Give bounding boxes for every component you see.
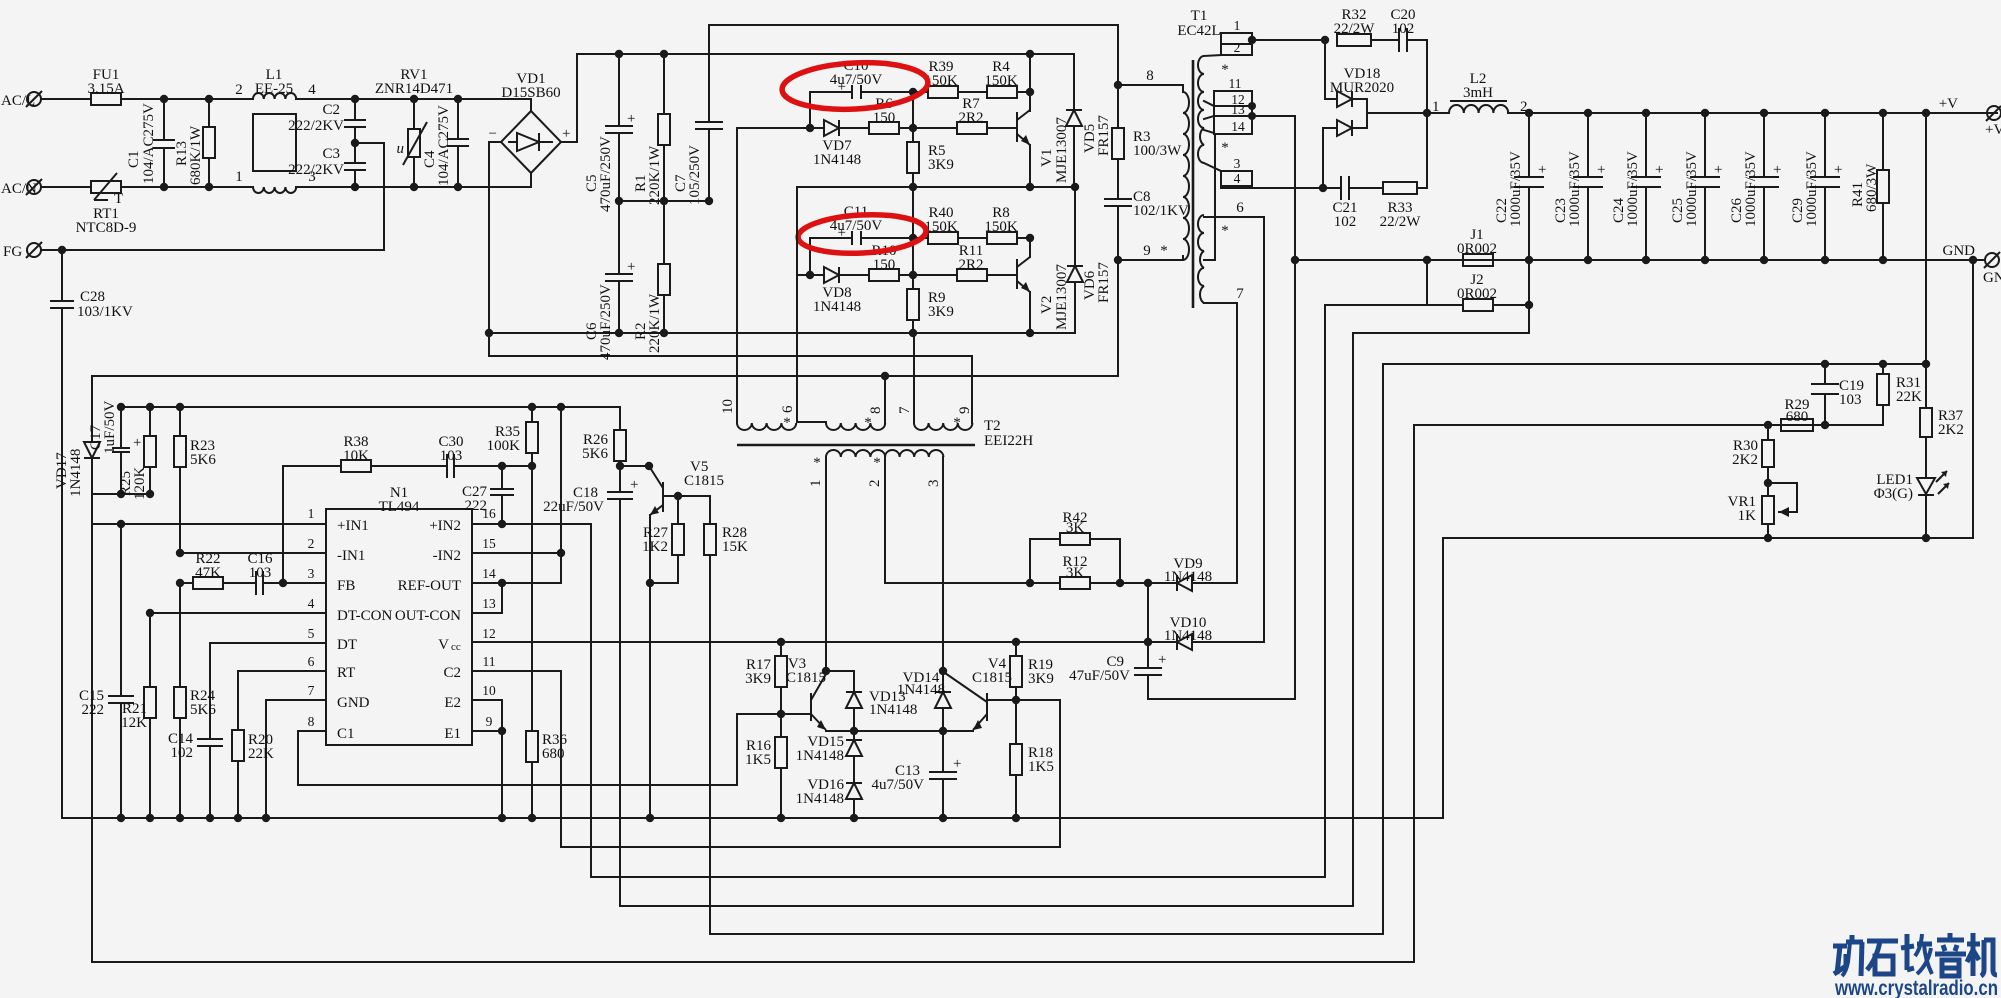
wire lower secondary center tap to pins box <box>1204 134 1215 260</box>
svg-text:10: 10 <box>482 683 496 698</box>
wire T2 pin8 riser to T1 pin9 line <box>884 376 886 423</box>
svg-text:ZNR14D471: ZNR14D471 <box>375 81 453 97</box>
capacitor C27 222 <box>462 462 514 528</box>
wire pin13 OUT-CON tie to pin14 <box>472 583 502 613</box>
wire AC/N into bridge bottom vertex <box>530 173 532 187</box>
wire T2 pin7 riser to HV- bus <box>913 333 915 423</box>
resistor R28 15K <box>678 496 748 934</box>
wire LED bottom rail <box>1443 537 1973 539</box>
svg-text:+: + <box>1773 162 1781 178</box>
resistor R40 150K <box>913 205 987 244</box>
svg-text:8: 8 <box>308 714 315 729</box>
svg-text:1000uF/35V: 1000uF/35V <box>1804 151 1820 227</box>
svg-text:11: 11 <box>1229 76 1242 91</box>
wire VD17/C17 bottom tie <box>92 493 150 495</box>
svg-text:222: 222 <box>82 702 105 718</box>
svg-text:4u7/50V: 4u7/50V <box>830 72 883 88</box>
svg-text:10K: 10K <box>343 448 369 464</box>
svg-text:3K9: 3K9 <box>745 671 771 687</box>
svg-text:1N4148: 1N4148 <box>68 449 84 497</box>
node AC/L input terminal <box>1 91 42 109</box>
svg-text:22K: 22K <box>248 746 274 762</box>
wire pin2 -IN1 stub <box>180 552 326 554</box>
svg-text:7: 7 <box>1236 286 1244 302</box>
capacitor C4 104/AC275V <box>422 95 469 191</box>
svg-text:2K2: 2K2 <box>1732 452 1758 468</box>
svg-text:FG: FG <box>3 244 22 260</box>
svg-text:3K: 3K <box>1066 565 1085 581</box>
svg-text:+: + <box>953 756 961 772</box>
svg-text:150K: 150K <box>924 219 958 235</box>
wire V1 collector branch <box>1029 54 1031 111</box>
svg-text:+: + <box>1655 162 1663 178</box>
wire T2 6 to 8 winding link <box>797 422 826 423</box>
svg-text:DT: DT <box>337 637 357 653</box>
svg-text:470uF/250V: 470uF/250V <box>598 136 614 212</box>
wire T1 pin8 <box>1118 84 1183 86</box>
node T1 pins 3/4 box <box>1204 156 1252 186</box>
svg-text:10: 10 <box>720 399 736 414</box>
svg-text:220K/1W: 220K/1W <box>647 293 663 353</box>
resistor R6 150 <box>869 96 957 134</box>
capacitor C14 102 <box>168 731 223 818</box>
svg-text:2: 2 <box>235 82 243 98</box>
capacitor C16 103 <box>247 551 326 595</box>
svg-text:3K9: 3K9 <box>928 157 954 173</box>
svg-text:120K: 120K <box>132 467 148 501</box>
node T1 pins 1/2 box <box>1204 18 1256 56</box>
svg-text:C2: C2 <box>443 665 461 681</box>
svg-text:C1815: C1815 <box>684 473 724 489</box>
svg-text:-IN1: -IN1 <box>337 548 365 564</box>
diode VD15 1N4148 <box>796 731 862 783</box>
wire bridge + to HV+ bus <box>561 54 1074 142</box>
glyph kuang 矿 <box>1833 935 1863 976</box>
capacitor C10 4u7/50V <box>810 58 913 128</box>
resistor R39 150K <box>913 59 987 98</box>
svg-text:C28: C28 <box>80 289 105 305</box>
svg-text:103: 103 <box>1839 392 1862 408</box>
wire pin1 +IN1 stub <box>92 523 326 525</box>
svg-text:1000uF/35V: 1000uF/35V <box>1743 151 1759 227</box>
svg-text:C3: C3 <box>322 146 340 162</box>
winding T2 secondary 2-3 <box>885 450 943 457</box>
resistor R37 2K2 <box>1920 408 1964 478</box>
svg-text:8: 8 <box>1146 68 1154 84</box>
wire pins3/4 output <box>1221 186 1323 188</box>
svg-text:C1: C1 <box>126 150 142 168</box>
svg-text:1K5: 1K5 <box>745 752 771 768</box>
svg-text:103/1KV: 103/1KV <box>77 304 133 320</box>
junction HV+ bus at V1 collector branch <box>1026 50 1034 58</box>
inductor L2 3mH <box>1427 71 1997 115</box>
wire +V sense descender <box>1925 113 1927 408</box>
svg-text:TL494: TL494 <box>379 499 420 515</box>
svg-text:+: + <box>133 435 141 451</box>
transistor V5 C1815 <box>620 459 724 822</box>
wire C7 top line to T1 pin8 <box>709 25 1118 85</box>
svg-text:C1: C1 <box>337 726 355 742</box>
svg-text:+V: +V <box>1939 96 1958 112</box>
resistor R36 680 <box>526 731 568 822</box>
wire pin7 GND stub <box>266 700 326 818</box>
svg-text:150: 150 <box>873 110 896 126</box>
svg-text:1N4148: 1N4148 <box>796 791 844 807</box>
wire pin4 DT-CON stub <box>150 612 326 614</box>
svg-text:*: * <box>873 455 881 471</box>
junction FG dot <box>58 246 66 254</box>
svg-text:5: 5 <box>308 626 315 641</box>
resistor R31 22K <box>1877 360 1922 425</box>
svg-text:3: 3 <box>1234 156 1241 171</box>
diode VD7 1N4148 <box>810 120 869 168</box>
svg-text:3: 3 <box>308 566 315 581</box>
wire pin10 E2 stub <box>472 700 502 731</box>
capacitor C17 1uF/50V <box>88 400 141 494</box>
resistor R12 3K <box>1026 554 1148 589</box>
svg-text:C1815: C1815 <box>972 670 1012 686</box>
wire C2/C3 midpoint to FG <box>355 143 384 250</box>
resistor R19 3K9 <box>1010 638 1054 704</box>
svg-text:9: 9 <box>957 407 973 415</box>
svg-text:OUT-CON: OUT-CON <box>395 608 461 624</box>
resistor R7 2R2 <box>957 96 1017 134</box>
svg-text:1N4148: 1N4148 <box>897 682 945 698</box>
svg-text:T1: T1 <box>1191 8 1208 24</box>
svg-text:+: + <box>1538 162 1546 178</box>
svg-text:7: 7 <box>308 683 315 698</box>
wire pin9 E1 stub <box>472 730 502 732</box>
svg-text:3K: 3K <box>1066 520 1085 536</box>
svg-text:1K: 1K <box>1738 508 1757 524</box>
capacitor C8 102/1KV <box>1104 189 1189 264</box>
resistor R4 150K <box>984 59 1034 98</box>
svg-text:15: 15 <box>482 536 496 551</box>
wire bridge - down to HV- bus <box>489 142 501 356</box>
resistor R2 220K/1W <box>633 201 670 353</box>
svg-text:7: 7 <box>897 406 913 414</box>
svg-text:1N4148: 1N4148 <box>1164 569 1212 585</box>
svg-text:1000uF/35V: 1000uF/35V <box>1508 151 1524 227</box>
wire L1 to bridge top (AC/L) <box>296 98 531 100</box>
svg-text:FB: FB <box>337 578 355 594</box>
svg-text:+: + <box>1834 162 1842 178</box>
svg-text:1000uF/35V: 1000uF/35V <box>1567 151 1583 227</box>
transistor V2 MJE13007 <box>1017 238 1070 337</box>
transformer T2 EEI22H drive transformer <box>720 128 1033 487</box>
svg-text:13: 13 <box>482 596 496 611</box>
svg-text:15K: 15K <box>722 539 748 555</box>
glyph shi 石 <box>1867 941 1898 974</box>
svg-text:22/2W: 22/2W <box>1334 21 1376 37</box>
transistor V3 C1815 <box>786 656 830 730</box>
inductor L1 EE-25 common mode choke <box>235 67 316 193</box>
svg-text:14: 14 <box>482 566 496 581</box>
svg-text:102: 102 <box>171 745 194 761</box>
capacitor C30 103 <box>438 434 532 478</box>
LED LED1 <box>1874 471 1949 542</box>
capacitor C21 102 <box>1323 176 1383 230</box>
red annotation ellipse around C10 <box>781 59 929 113</box>
wire R35 node to R36 <box>531 466 533 731</box>
svg-text:12: 12 <box>482 626 496 641</box>
svg-text:3.15A: 3.15A <box>87 81 124 97</box>
potentiometer VR1 1K <box>1728 483 1797 542</box>
wire L1 to bridge bottom (AC/N) <box>296 186 531 188</box>
svg-text:C1815: C1815 <box>786 670 826 686</box>
wire FG line <box>41 249 384 251</box>
wire T1 pin6 <box>1204 217 1264 642</box>
glyph ji 机 <box>1967 933 1997 976</box>
svg-text:EC42L: EC42L <box>1177 23 1220 39</box>
svg-text:220K/1W: 220K/1W <box>647 145 663 205</box>
junction C11/R40 node <box>909 234 917 242</box>
diode VD9 1N4148 <box>1144 556 1237 591</box>
svg-text:104/AC275V: 104/AC275V <box>436 105 452 186</box>
svg-text:+: + <box>627 259 635 275</box>
varistor RV1 ZNR14D471 <box>375 67 453 191</box>
svg-text:102: 102 <box>1334 214 1357 230</box>
node FG terminal <box>3 242 42 260</box>
red annotation ellipse around C11 <box>797 212 927 257</box>
jumper J2 0R002 <box>1423 256 1533 333</box>
svg-text:1K5: 1K5 <box>1028 759 1054 775</box>
svg-text:www.crystalradio.cn: www.crystalradio.cn <box>1834 976 1998 998</box>
glyph yin 音 <box>1935 933 1966 976</box>
resistor R32 22/2W <box>1321 7 1399 46</box>
svg-text:222: 222 <box>465 498 488 514</box>
svg-text:100K: 100K <box>487 438 521 454</box>
diode VD18 MUR2020 dual <box>1323 40 1431 188</box>
resistor R16 1K5 <box>745 714 787 822</box>
svg-text:+: + <box>1158 652 1166 668</box>
wire GND rail <box>1295 259 1985 261</box>
svg-text:11: 11 <box>483 654 496 669</box>
svg-text:T: T <box>114 191 123 207</box>
wire V4 base row <box>987 699 1060 701</box>
wire pins 12/13/14 to GND rail <box>1252 116 1295 699</box>
wire pins1/2 output to R32/VD18 <box>1252 39 1325 41</box>
wire control ground bus <box>62 817 1443 819</box>
capacitor C13 4u7/50V <box>872 731 962 822</box>
resistor R18 1K5 <box>1010 700 1054 822</box>
wire mid rail (half-bridge midpoint) <box>797 186 1075 188</box>
svg-text:680: 680 <box>542 746 565 762</box>
node +V output <box>1939 96 2001 138</box>
wire AC/N RT1 to L1 <box>121 186 253 188</box>
svg-text:EEI22H: EEI22H <box>984 433 1033 449</box>
winding T2 7-9 <box>914 423 972 430</box>
svg-text:2R2: 2R2 <box>958 110 983 126</box>
wire LED return to GND <box>1972 260 1974 538</box>
junction Vcc rail end <box>1144 638 1152 646</box>
resistor R8 150K <box>984 205 1034 244</box>
svg-text:105/250V: 105/250V <box>687 145 703 205</box>
wire J2 left node to +IN2 sense line <box>1325 305 1427 877</box>
wire T2 pin6 riser to midpoint rail <box>796 187 798 422</box>
transistor V4 C1815 <box>945 656 1012 730</box>
svg-text:1uF/50V: 1uF/50V <box>102 400 118 454</box>
wire T1 pin7 <box>1204 303 1237 583</box>
svg-text:C2: C2 <box>322 102 340 118</box>
svg-text:0R002: 0R002 <box>1457 286 1497 302</box>
capacitor C25 1000uF/35V <box>1670 109 1722 264</box>
resistor R24 5K6 <box>174 687 216 818</box>
svg-text:1000uF/35V: 1000uF/35V <box>1684 151 1700 227</box>
svg-text:1N4148: 1N4148 <box>796 748 844 764</box>
fuse FU1 3.15A <box>87 67 124 105</box>
svg-text:1: 1 <box>235 169 243 185</box>
capacitor C1 104/AC275V <box>126 95 175 191</box>
diode VD13 1N4148 <box>826 671 917 735</box>
wire -IN1 node vertical to R24 <box>179 583 181 687</box>
glyph shou 收 <box>1901 934 1932 974</box>
svg-text:V2: V2 <box>1039 296 1055 314</box>
svg-text:*: * <box>783 415 791 431</box>
svg-text:*: * <box>864 415 872 431</box>
resistor R17 3K9 <box>745 638 787 718</box>
svg-text:GND: GND <box>337 695 370 711</box>
resistor R3 100/3W snubber <box>1112 81 1182 199</box>
svg-text:2: 2 <box>867 480 883 488</box>
svg-text:+: + <box>1714 162 1722 178</box>
svg-text:*: * <box>953 415 961 431</box>
diode VD10 1N4148 <box>1144 583 1264 650</box>
svg-text:*: * <box>1221 223 1229 239</box>
wire V4 base to C2 line riser <box>1059 700 1061 847</box>
resistor R21 12K <box>121 613 156 818</box>
svg-text:9: 9 <box>1143 243 1151 259</box>
capacitor C6 470uF/250V <box>584 201 635 360</box>
svg-text:-IN2: -IN2 <box>433 548 461 564</box>
resistor R27 1K2 <box>642 496 684 587</box>
resistor R20 22K <box>232 730 274 818</box>
capacitor C9 47uF/50V <box>1069 642 1295 699</box>
capacitor C3 222/2KV <box>288 139 366 191</box>
svg-text:4: 4 <box>308 596 315 611</box>
svg-text:1: 1 <box>808 480 824 488</box>
svg-text:u: u <box>397 141 405 157</box>
resistor R35 100K <box>487 403 538 470</box>
resistor R1 220K/1W <box>633 50 670 205</box>
svg-text:+: + <box>1597 162 1605 178</box>
wire pin15 -IN2 stub <box>472 552 561 554</box>
resistor R41 680/3W <box>1850 109 1889 264</box>
wire sense top line <box>710 364 1926 934</box>
svg-text:V1: V1 <box>1039 149 1055 167</box>
svg-text:5K6: 5K6 <box>582 446 608 462</box>
resistor R33 22/2W <box>1380 113 1427 230</box>
wire T2 pin10 riser to VD7 row <box>736 128 738 423</box>
wire T2 pin2 to R12/R42 <box>885 457 1030 583</box>
junction C10/R39 node <box>909 88 917 96</box>
winding T2 secondary 1-2 <box>826 450 885 457</box>
svg-text:150K: 150K <box>984 73 1018 89</box>
transformer T1 upper secondary winding <box>1198 56 1229 163</box>
svg-text:Φ3(G): Φ3(G) <box>1874 486 1913 502</box>
wire current sense line from J2 <box>620 333 1529 906</box>
diode VD17 1N4148 <box>54 376 100 962</box>
svg-text:1: 1 <box>308 506 315 521</box>
svg-text:6: 6 <box>780 405 796 413</box>
resistor R13 680K/1W <box>174 95 215 191</box>
resistor R38 10K <box>283 434 447 583</box>
capacitor C19 103 <box>1811 360 1864 429</box>
resistor R5 3K9 <box>907 128 954 186</box>
svg-text:RT: RT <box>337 665 355 681</box>
core T2 <box>737 444 975 447</box>
svg-text:8: 8 <box>868 407 884 415</box>
bridge rectifier VD1 D15SB60 <box>489 71 571 173</box>
svg-text:4: 4 <box>1234 171 1241 186</box>
svg-text:MJE13007: MJE13007 <box>1054 264 1070 330</box>
svg-text:T2: T2 <box>984 418 1001 434</box>
svg-text:102/1KV: 102/1KV <box>1133 203 1189 219</box>
svg-text:14: 14 <box>1231 119 1245 134</box>
svg-text:4u7/50V: 4u7/50V <box>872 777 925 793</box>
svg-text:AC/L: AC/L <box>1 93 35 109</box>
svg-text:FR157: FR157 <box>1096 262 1112 303</box>
svg-text:4u7/50V: 4u7/50V <box>830 218 883 234</box>
svg-text:150K: 150K <box>984 219 1018 235</box>
resistor R11 2R2 <box>957 243 1017 281</box>
node GND output <box>1943 243 2001 286</box>
svg-text:−: − <box>489 126 497 142</box>
wire pin11 C2 stub to V4 base <box>472 671 1060 847</box>
wire sense divider line <box>92 425 1883 962</box>
svg-text:6: 6 <box>1236 200 1244 216</box>
junction R6/R5 node <box>909 124 917 132</box>
svg-text:2K2: 2K2 <box>1938 422 1964 438</box>
svg-text:3: 3 <box>926 480 942 488</box>
svg-text:102: 102 <box>1392 21 1415 37</box>
transformer T1 core <box>1192 60 1195 308</box>
capacitor C5 470uF/250V <box>584 50 635 212</box>
svg-text:12K: 12K <box>121 715 147 731</box>
wire HV- bus <box>489 332 1075 334</box>
wire bottom rail to control ground bus <box>1442 538 1444 818</box>
resistor R30 2K2 <box>1732 425 1774 487</box>
svg-text:4: 4 <box>308 82 316 98</box>
svg-text:MUR2020: MUR2020 <box>1330 80 1394 96</box>
wire HV mid rail <box>619 200 709 202</box>
wire T2 pin3 to V4 collector <box>942 457 944 671</box>
wire AC/L into bridge top vertex <box>530 99 532 111</box>
jumper J1 0R002 <box>1457 227 1497 266</box>
svg-text:3mH: 3mH <box>1463 85 1493 101</box>
svg-text:104/AC275V: 104/AC275V <box>141 103 157 184</box>
svg-text:222/2KV: 222/2KV <box>288 118 344 134</box>
svg-text:FR157: FR157 <box>1096 115 1112 156</box>
svg-text:2: 2 <box>1234 40 1241 55</box>
wire T1 pin9 <box>1118 259 1183 261</box>
svg-text:103: 103 <box>440 448 463 464</box>
node T1 pins 11-14 box <box>1204 76 1256 134</box>
wire REF rail <box>121 406 620 408</box>
transformer T1 primary winding <box>1183 85 1189 260</box>
svg-text:1N4148: 1N4148 <box>1164 628 1212 644</box>
svg-text:*: * <box>1221 140 1229 156</box>
svg-text:NTC8D-9: NTC8D-9 <box>76 220 137 236</box>
capacitor C15 222 <box>79 524 134 818</box>
capacitor C2 222/2KV <box>288 95 366 143</box>
diode VD6 FR157 <box>1067 187 1112 333</box>
svg-text:47K: 47K <box>195 565 221 581</box>
svg-text:3K9: 3K9 <box>928 304 954 320</box>
resistor R25 120K <box>118 403 156 500</box>
resistor R22 47K <box>193 551 256 589</box>
svg-text:680K/1W: 680K/1W <box>188 125 204 185</box>
